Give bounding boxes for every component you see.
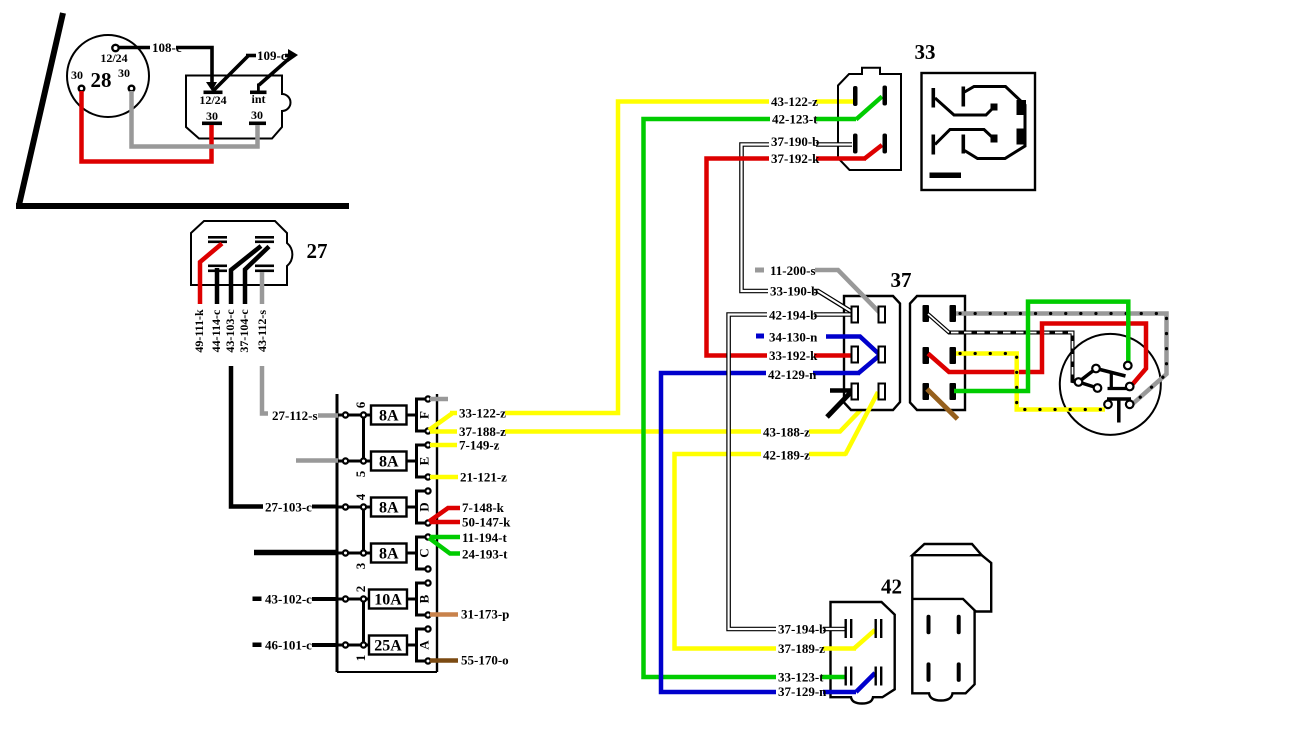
connector 27 pin top-left [208, 236, 227, 243]
svg-text:33-122-z: 33-122-z [459, 406, 506, 421]
fuse row 3 (C) wire left [337, 552, 371, 555]
svg-text:7-149-z: 7-149-z [459, 438, 500, 453]
connector 37 title [891, 268, 912, 292]
switch terminal A [1092, 365, 1100, 373]
switch arm A to contact [1096, 369, 1126, 377]
contact node row 5 a [343, 458, 348, 463]
37 left pin r2c1 [852, 347, 859, 363]
svg-text:8A: 8A [379, 546, 399, 563]
svg-text:25A: 25A [374, 638, 402, 655]
svg-text:24-193-t: 24-193-t [462, 547, 508, 562]
contact node row 2 b [361, 596, 366, 601]
svg-text:12/24: 12/24 [199, 93, 226, 107]
housing pin 4 [957, 662, 961, 682]
42 pin r2c1 [845, 667, 853, 686]
relay box pin bar bottom-mid [962, 135, 966, 154]
svg-text:43-188-z: 43-188-z [763, 425, 810, 440]
wire yellow dotted from 37 to switch [956, 354, 1105, 410]
relay box trace bottom-left contact [935, 130, 998, 145]
switch terminal D green [1124, 362, 1132, 370]
42 pin r1c2 [875, 619, 883, 638]
label 42-194-b [767, 308, 817, 323]
svg-text:31-173-p: 31-173-p [461, 607, 509, 622]
relay box pin bar top-mid [962, 87, 966, 107]
42 pin r2c2 [875, 667, 883, 686]
switch arm A-B-C [1079, 369, 1098, 389]
37 left pin r3c1 [852, 384, 859, 400]
fuse row 2 (B) wire left [337, 598, 371, 601]
wire gray dotted from 37 to switch [956, 314, 1167, 405]
housing 3d body main outline [912, 555, 991, 700]
svg-text:8A: 8A [379, 454, 399, 471]
wire 43-103-c continuation to fuse box [231, 366, 263, 507]
fuse row 6 (F) wire left [337, 414, 371, 417]
svg-text:5: 5 [353, 470, 368, 477]
wire white dashed from 37 to switch [928, 314, 1078, 382]
wire 43-103-c [223, 246, 261, 353]
svg-text:4: 4 [353, 493, 368, 500]
switch contact bar horizontal [1108, 387, 1129, 390]
contact node row 6 b [361, 412, 366, 417]
output bracket C [417, 537, 432, 569]
output bracket E [417, 445, 432, 477]
fuse position number 5 [353, 470, 368, 477]
svg-text:C: C [417, 548, 432, 557]
contact D top [425, 488, 430, 493]
fuse position number 1 [353, 655, 368, 662]
svg-text:34-130-n: 34-130-n [769, 330, 818, 345]
contact E top [425, 442, 430, 447]
connector 33 body [838, 40, 936, 170]
label 33-190-b [768, 284, 818, 299]
fuse row 5 (E) wire left [337, 460, 371, 463]
switch terminal C [1094, 384, 1102, 392]
wire 42-129-n / 37-129-n long blue [661, 355, 880, 692]
wire 27-112-s label+stub [270, 408, 338, 423]
svg-text:30: 30 [118, 66, 130, 80]
svg-text:10A: 10A [374, 592, 402, 609]
label 33-192-k [767, 348, 818, 363]
housing 3d body top face [912, 544, 981, 555]
wire 37-192-k / 33-192-k red [707, 145, 883, 356]
wire 27-103-c label [263, 500, 338, 515]
wire 50-147-k [430, 515, 511, 530]
contact C top [425, 534, 430, 539]
svg-text:12/24: 12/24 [100, 51, 127, 65]
svg-text:28: 28 [91, 68, 112, 92]
switch terminal F yellow [1104, 401, 1112, 409]
svg-text:37: 37 [891, 268, 912, 292]
wire red 28 to socket 30 [82, 91, 212, 162]
connector 42 body [831, 602, 895, 704]
svg-text:21-121-z: 21-121-z [460, 470, 507, 485]
label 37-190-b [769, 134, 819, 149]
svg-text:D: D [417, 502, 432, 511]
contact F bottom [425, 428, 430, 433]
FUSEBOX bottom edge [337, 671, 437, 673]
svg-text:37-129-n: 37-129-n [778, 684, 827, 699]
contact node row 1 a [343, 642, 348, 647]
svg-text:B: B [417, 594, 432, 603]
terminal 30 right of 28 [118, 66, 134, 91]
switch circle body [1060, 334, 1161, 435]
wire 108-c [119, 40, 217, 91]
connector 33 pin 4 [883, 134, 888, 154]
svg-text:F: F [417, 411, 432, 419]
svg-text:43-122-z: 43-122-z [771, 94, 818, 109]
svg-text:37-189-z: 37-189-z [778, 641, 825, 656]
svg-text:8A: 8A [379, 408, 399, 425]
contact node row 4 b [361, 504, 366, 509]
42 pin r1c1 [845, 619, 853, 638]
svg-text:E: E [417, 457, 432, 466]
contact node row 1 b [361, 642, 366, 647]
pin 30 left of relay socket [202, 109, 222, 125]
switch terminal E red [1126, 383, 1134, 391]
37 right pin r2c2 [950, 347, 957, 364]
label 42-189-z [761, 448, 810, 463]
relay box trace top-left contact [935, 98, 998, 115]
svg-text:2: 2 [353, 586, 368, 593]
svg-text:37-104-c: 37-104-c [237, 309, 251, 353]
37 right pin r1c2 [950, 305, 957, 322]
connector 27 body [191, 221, 328, 285]
label 37-129-n [776, 684, 827, 699]
contact D bottom [425, 520, 430, 525]
output bracket F [417, 399, 432, 431]
svg-text:46-101-c: 46-101-c [265, 638, 312, 653]
relay box pin bar bottom-left [932, 135, 936, 155]
label 11-200-s [768, 263, 816, 278]
svg-text:42: 42 [881, 575, 902, 599]
svg-text:50-147-k: 50-147-k [462, 515, 511, 530]
svg-text:27-112-s: 27-112-s [272, 408, 318, 423]
wire thick black input row 3 [254, 550, 338, 556]
switch T element [1107, 399, 1131, 423]
svg-text:37-194-b: 37-194-b [778, 622, 826, 637]
fuse position number 6 [353, 401, 368, 408]
wire gray stub output F top [430, 397, 448, 402]
svg-text:37-190-b: 37-190-b [771, 134, 819, 149]
contact E bottom [425, 474, 430, 479]
switch contact bar vertical [1110, 371, 1113, 389]
wire 42-194-b / 37-194-b white [729, 315, 854, 630]
switch terminal B [1075, 378, 1083, 386]
terminal 12/24 of 28 [100, 45, 127, 65]
output bracket B [417, 583, 432, 615]
wire green from 37 to switch [954, 302, 1128, 391]
connector 33 pin 2 [883, 86, 888, 106]
connector 33 pin 3 [853, 134, 858, 154]
svg-text:43-112-s: 43-112-s [255, 310, 269, 352]
fuse position number 3 [353, 562, 368, 569]
wire red from 37 to switch [928, 324, 1146, 386]
wire 24-193-t [429, 538, 508, 562]
wire 21-121-z [430, 470, 507, 485]
housing pin 3 [927, 662, 931, 682]
svg-text:33: 33 [915, 40, 936, 64]
svg-text:37-192-k: 37-192-k [771, 151, 820, 166]
svg-text:108-c: 108-c [152, 40, 182, 55]
wire 37-188-z / 43-188-z : F bottom to connector 37 pin [430, 392, 878, 440]
svg-text:int: int [251, 92, 265, 106]
wire gray 28 to socket 30 [132, 91, 258, 147]
wire 37-190-b / 33-190-b white [742, 145, 853, 313]
svg-text:7-148-k: 7-148-k [462, 500, 505, 515]
relay socket body (mate of 28) [186, 76, 291, 139]
svg-text:44-114-c: 44-114-c [209, 309, 223, 352]
label 37-192-k [769, 151, 820, 166]
contact node row 3 b [361, 550, 366, 555]
wire 43-112-s continuation (27-112-s) [262, 366, 268, 414]
svg-text:43-103-c: 43-103-c [223, 309, 237, 353]
contact B top [425, 580, 430, 585]
wire 43-102-c stub+label [253, 592, 339, 607]
label 34-130-n [767, 330, 818, 345]
svg-text:11-200-s: 11-200-s [770, 263, 816, 278]
housing pin 1 [927, 615, 931, 635]
37 right pin r2c1 [923, 347, 930, 364]
pin 30 right of relay socket [249, 108, 266, 125]
wire 11-200-s gray [755, 268, 881, 315]
label 33-123-t [776, 670, 824, 685]
svg-text:A: A [417, 640, 432, 650]
wire 7-149-z [430, 438, 500, 453]
37 left pin r2c2 [879, 347, 886, 363]
bus link 2 [362, 599, 365, 645]
svg-text:27: 27 [307, 239, 328, 263]
svg-text:27-103-c: 27-103-c [265, 500, 312, 515]
svg-text:11-194-t: 11-194-t [462, 530, 507, 545]
label 37-194-b [776, 622, 826, 637]
37 left pin r3c2 [879, 384, 886, 400]
contact node row 5 b [361, 458, 366, 463]
contact node row 2 a [343, 596, 348, 601]
svg-text:33-190-b: 33-190-b [770, 284, 818, 299]
border horizontal line [16, 203, 349, 209]
svg-text:33-192-k: 33-192-k [769, 348, 818, 363]
fuse 8A row 3 [371, 544, 418, 563]
bus link 6 [362, 415, 365, 461]
wire black arrow into 37 [827, 391, 851, 418]
bus link 4 [362, 507, 365, 553]
fuse 8A row 4 [371, 498, 418, 517]
contact F top [425, 396, 430, 401]
contact B bottom [425, 612, 430, 617]
wire 31-173-p [430, 607, 509, 622]
relay internal schematic box of 33 [922, 73, 1036, 190]
svg-text:33-123-t: 33-123-t [778, 670, 824, 685]
contact A top [425, 626, 430, 631]
wire 46-101-c stub+label [253, 638, 339, 653]
connector 37 right half body [910, 296, 965, 410]
output bracket A [417, 629, 432, 661]
wire 42-123-t / 33-123-t long green [644, 97, 883, 678]
wire 7-148-k [429, 500, 505, 522]
terminal 30 left of 28 [71, 68, 84, 91]
37 right pin r3c1 [923, 383, 930, 400]
label 42-123-t [770, 112, 818, 127]
fuse 8A row 6 [371, 406, 418, 425]
pin int of relay socket [250, 84, 267, 107]
svg-text:1: 1 [353, 655, 368, 662]
svg-text:42-129-n: 42-129-n [768, 367, 817, 382]
label 42-129-n [766, 367, 817, 382]
contact node row 6 a [343, 412, 348, 417]
connector 27 pin bottom-right [255, 265, 274, 273]
svg-text:3: 3 [353, 562, 368, 569]
svg-text:30: 30 [71, 68, 83, 82]
fuse 25A row 1 [369, 636, 418, 655]
connector 27 pin bottom-left [208, 265, 227, 273]
relay box bottom bar [930, 173, 962, 179]
37 left pin r1c1 [852, 307, 859, 323]
label 37-189-z [776, 641, 825, 656]
wire gray input row 5 [296, 458, 338, 463]
svg-text:109-c: 109-c [257, 48, 287, 63]
37 right pin r3c2 [950, 383, 957, 400]
wire 11-194-t [430, 530, 507, 545]
svg-text:49-111-k: 49-111-k [192, 309, 206, 353]
switch terminal G gray [1126, 401, 1134, 409]
37 right pin r1c1 [923, 305, 930, 322]
svg-text:30: 30 [251, 108, 263, 122]
pin 12/24 of relay socket [199, 91, 226, 108]
fuse row 4 (D) wire left [337, 506, 371, 509]
svg-text:8A: 8A [379, 500, 399, 517]
wire 43-112-s [255, 272, 269, 352]
37 left pin r1c2 [879, 307, 886, 323]
svg-text:42-123-t: 42-123-t [772, 112, 818, 127]
wire brown from 37 [927, 389, 958, 419]
FUSEBOX right bus [436, 394, 438, 672]
connector 33 pin 1 [853, 86, 858, 106]
housing pin 2 [957, 615, 961, 635]
fuse 10A row 2 [369, 590, 418, 609]
svg-text:43-102-c: 43-102-c [265, 592, 312, 607]
contact C bottom [425, 566, 430, 571]
svg-text:30: 30 [206, 109, 218, 123]
connector 27 pin top-right [255, 236, 274, 243]
wire 49-111-k [192, 244, 222, 353]
fuse position number 2 [353, 586, 368, 593]
FUSEBOX left bus [336, 394, 339, 672]
relay box pin bar top-left [932, 88, 936, 108]
svg-text:42-194-b: 42-194-b [769, 308, 817, 323]
fuse position number 4 [353, 493, 368, 500]
svg-text:42-189-z: 42-189-z [763, 448, 810, 463]
svg-text:55-170-o: 55-170-o [461, 653, 509, 668]
contact node row 3 a [343, 550, 348, 555]
wire 33-122-z : F bottom to connector 33 pin [429, 102, 854, 431]
wire 109-c [213, 48, 298, 91]
ignition switch 28 body [67, 35, 149, 117]
connector 37 left half body [844, 296, 900, 410]
connector 42 title [881, 575, 902, 599]
wire 34-130-n blue stub [756, 334, 880, 356]
fuse row 1 (A) wire left [337, 644, 371, 647]
output bracket D [417, 491, 432, 523]
fuse 8A row 5 [371, 452, 418, 471]
svg-text:6: 6 [353, 401, 368, 408]
relay box outer loop trace [965, 87, 1027, 159]
wire 37-104-c [237, 247, 269, 353]
wire 55-170-o [430, 653, 509, 668]
contact A bottom [425, 658, 430, 663]
wire 42-189-z / 37-189-z yellow [675, 392, 879, 649]
contact node row 4 a [343, 504, 348, 509]
label 43-122-z [769, 94, 818, 109]
border diagonal line [19, 13, 63, 205]
wire 44-114-c [209, 268, 223, 352]
